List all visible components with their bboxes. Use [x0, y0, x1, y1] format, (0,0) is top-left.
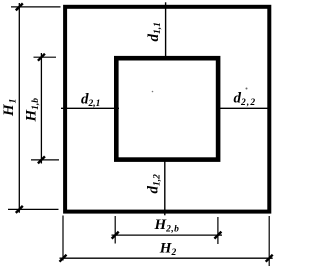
wire connector d1,1 (outer top to inner top) [165, 2, 167, 60]
svg-text:H2,b: H2,b [154, 217, 180, 235]
svg-text:H2: H2 [159, 240, 177, 257]
dimension H2,b line [112, 234, 223, 236]
label H1,b [24, 98, 42, 123]
svg-text:d1,2: d1,2 [145, 174, 162, 194]
label d1,2 [145, 174, 162, 194]
dimension H2 tick right [266, 255, 273, 262]
svg-text:d2,1: d2,1 [81, 92, 100, 110]
svg-text:H1: H1 [1, 99, 19, 117]
dimension H2,b extension line right [217, 217, 219, 244]
dimension H1,b extension line bottom [31, 159, 59, 161]
dimension H2 extension line left [62, 216, 64, 261]
dimension H2 line [60, 257, 273, 259]
dimension H2 tick left [60, 255, 67, 262]
dimension H2,b tick right [214, 232, 221, 239]
dimension H1 tick top [16, 3, 23, 10]
svg-text:H1,b: H1,b [24, 98, 42, 123]
dimension H1 line [18, 3, 20, 213]
svg-text:d2,2: d2,2 [234, 91, 257, 109]
wire connector d2,2 (inner right to outer right) [216, 107, 271, 109]
dimension H1,b line [40, 53, 42, 164]
wire connector d2,1 (outer left to inner left) [61, 107, 119, 109]
dimension H1,b tick bottom [38, 156, 45, 163]
label d1,1 [146, 22, 163, 41]
dimension H1 extension line top [11, 6, 61, 8]
label H1 [1, 99, 19, 117]
speck [246, 88, 248, 90]
dimension H2,b extension line left [114, 216, 116, 244]
dimension H1 extension line bottom [8, 208, 59, 210]
dimension H2 extension line right [268, 216, 270, 266]
wire connector d1,2 (inner bottom to outer bottom) [164, 158, 166, 215]
inner square [116, 58, 218, 159]
speck [152, 91, 154, 93]
dimension H2,b tick left [112, 232, 119, 239]
dimension H1 tick bottom [16, 206, 23, 213]
dimension H1,b tick top [38, 54, 45, 61]
dimension H1,b extension line top [34, 56, 57, 58]
svg-text:d1,1: d1,1 [146, 22, 163, 41]
outer square [65, 7, 269, 212]
